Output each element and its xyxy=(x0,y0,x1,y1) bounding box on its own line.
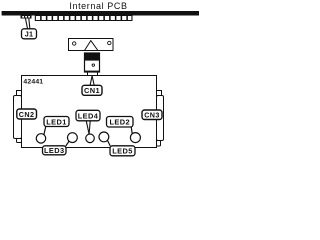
CN3 label box xyxy=(142,110,162,120)
left edge connector CN2 xyxy=(14,91,22,143)
svg-text:LED3: LED3 xyxy=(44,146,65,155)
svg-text:LED4: LED4 xyxy=(78,111,99,120)
CN1 legs xyxy=(87,72,89,75)
svg-text:LED5: LED5 xyxy=(112,147,133,156)
CN2 label box xyxy=(17,109,37,119)
LED5 leader line xyxy=(108,141,111,147)
LED2 leader line xyxy=(130,127,133,134)
svg-text:LED2: LED2 xyxy=(110,118,131,127)
LED pad circle C4 xyxy=(99,132,109,142)
svg-text:LED1: LED1 xyxy=(46,117,67,126)
LED1 label box xyxy=(44,117,69,127)
svg-text:CN1: CN1 xyxy=(84,86,100,95)
LED2 label box xyxy=(107,117,134,128)
LED3 leader line xyxy=(66,141,69,146)
LED pad circle C5 xyxy=(130,133,140,143)
LED pad circle C1 xyxy=(36,134,45,143)
LED4 callout tail xyxy=(86,121,90,134)
CN1 callout tail xyxy=(90,76,94,86)
svg-text:Internal PCB: Internal PCB xyxy=(69,1,127,11)
top PCB edge bar xyxy=(2,11,199,16)
LED3 label box xyxy=(43,146,67,155)
CN1 connector body xyxy=(84,53,100,72)
LED pad circle C2 xyxy=(68,133,78,143)
right edge connector CN3 xyxy=(157,91,164,147)
J1 label box xyxy=(22,29,37,39)
CN1 connector mounting plate xyxy=(69,39,114,51)
LED4 label box xyxy=(76,110,100,121)
J1 callout wires xyxy=(25,18,27,29)
svg-text:42441: 42441 xyxy=(23,78,43,85)
pin-header strip xyxy=(35,16,133,22)
PCB board outline 42441 xyxy=(22,76,157,148)
LED5 label box xyxy=(110,146,135,156)
svg-text:CN2: CN2 xyxy=(19,110,35,119)
LED1 leader line xyxy=(44,126,46,134)
LED pad circle C3 xyxy=(86,134,95,143)
CN1 label box xyxy=(82,85,102,95)
svg-text:CN3: CN3 xyxy=(144,111,160,120)
connector J1 (3-pin block) xyxy=(21,16,32,19)
svg-text:J1: J1 xyxy=(25,30,34,39)
CN1 connector latch triangle xyxy=(85,41,98,51)
